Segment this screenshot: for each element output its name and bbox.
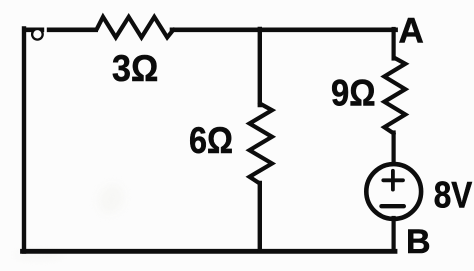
wire right branch upper bbox=[392, 29, 396, 59]
svg-text:9Ω: 9Ω bbox=[331, 72, 376, 113]
svg-text:B: B bbox=[406, 223, 431, 261]
wire top-left segment bbox=[23, 27, 45, 32]
resistor R2 6ohm zigzag bbox=[250, 104, 273, 184]
resistor R1 3ohm zigzag bbox=[97, 17, 174, 38]
wire source to bottom bbox=[392, 218, 396, 251]
wire middle branch upper bbox=[258, 29, 262, 105]
voltage source plus sign bbox=[383, 171, 403, 190]
scan smudge below bottom wire bbox=[14, 252, 64, 258]
svg-text:8V: 8V bbox=[434, 175, 473, 216]
wire top-middle segment bbox=[172, 27, 396, 32]
resistor R3 9ohm zigzag bbox=[384, 58, 405, 134]
svg-text:6Ω: 6Ω bbox=[189, 120, 233, 161]
voltage source minus sign bbox=[382, 204, 404, 208]
scan smudge lower-left bbox=[94, 180, 128, 217]
wire bottom bbox=[23, 249, 396, 254]
wire middle branch lower bbox=[258, 183, 262, 251]
voltage source V1 body bbox=[366, 164, 421, 219]
corner node hook artifact bbox=[32, 29, 43, 40]
wire left side bbox=[22, 29, 26, 252]
svg-text:3Ω: 3Ω bbox=[112, 48, 158, 89]
svg-text:A: A bbox=[399, 11, 424, 50]
wire 9ohm to source bbox=[392, 133, 396, 166]
wire top-left segment b bbox=[47, 27, 98, 32]
